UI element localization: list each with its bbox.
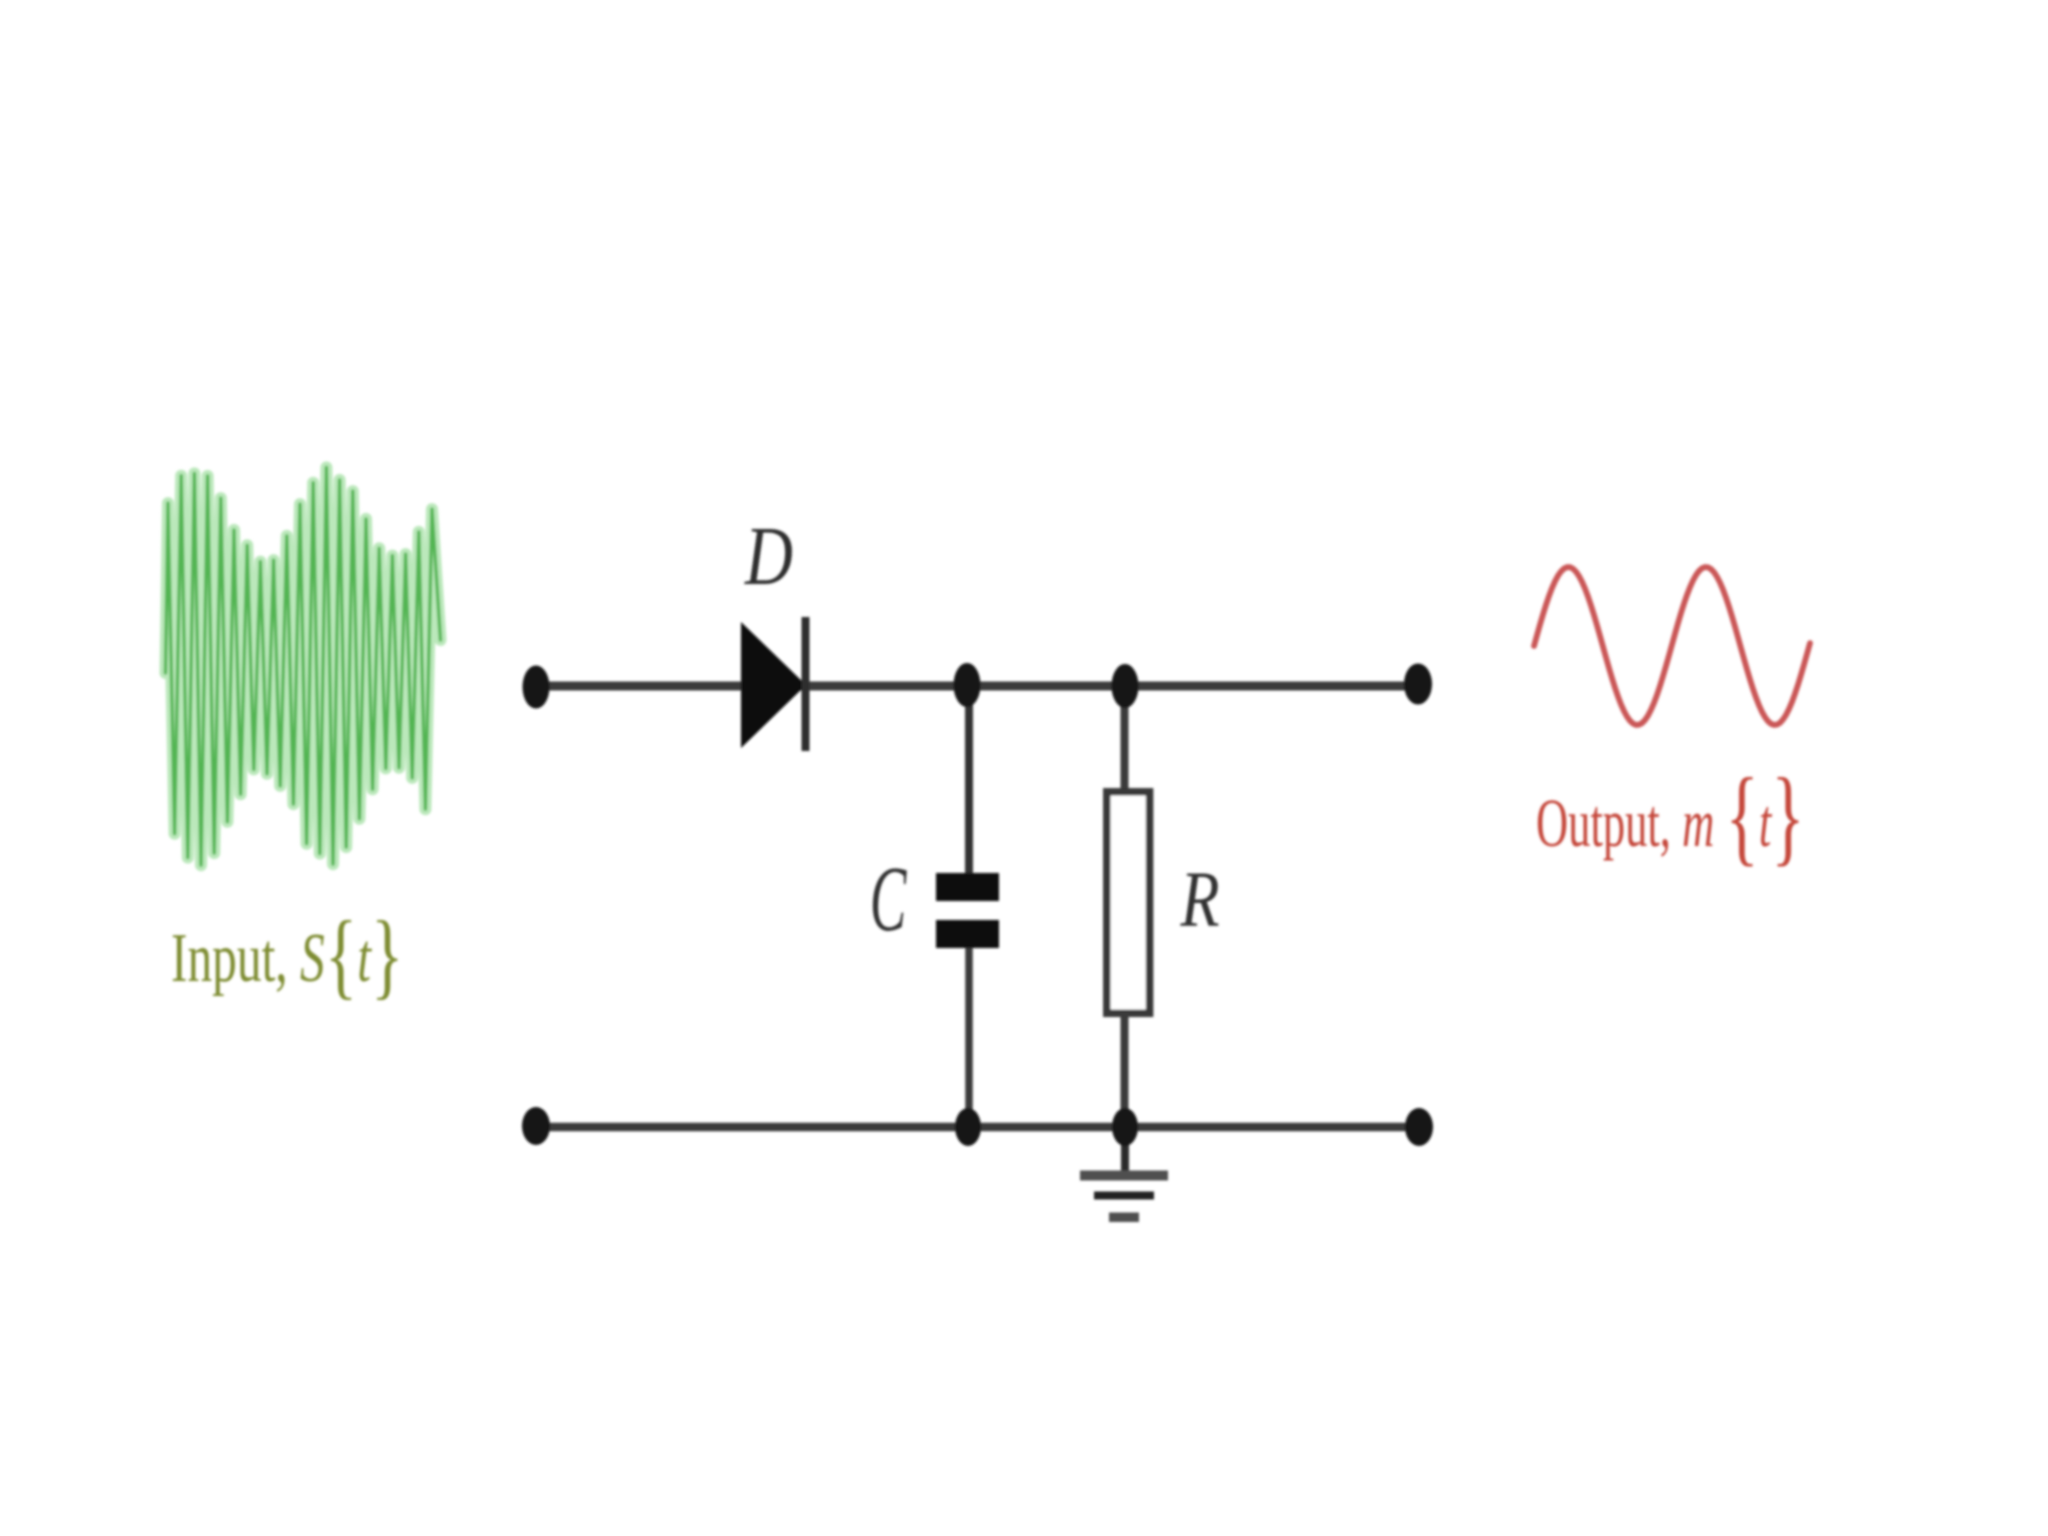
svg-text:C: C [870,847,907,951]
svg-text:R: R [1180,856,1220,944]
svg-text:D: D [744,511,793,603]
